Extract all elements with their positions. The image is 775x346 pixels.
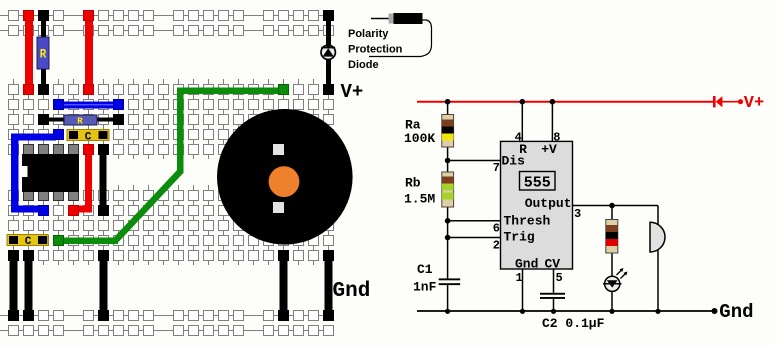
resistor Ra 100K (schematic) [442,115,454,148]
svg-text:100K: 100K [404,131,435,146]
svg-text:3: 3 [574,207,581,221]
wire black ground jumper W9 (row j col2 to bottom rail) [24,251,34,321]
wire: Trig line (pin 2) [448,237,501,239]
annotation: polarity protection diode text [348,28,403,71]
svg-text:Rb: Rb [405,176,421,191]
svg-text:Gnd: Gnd [515,257,538,272]
svg-text:Dis: Dis [502,153,526,168]
wire red jumper W2 (V+ rail to row a col6) [84,11,94,95]
wire green jumper W7 (row a col19 to row i col4) [54,85,289,246]
capacitor C2 0.1uF (schematic) [540,293,565,311]
capacitor C1 1nF (schematic) [439,278,461,285]
svg-text:Trig: Trig [504,230,535,245]
svg-text:Thresh: Thresh [504,214,551,229]
wire red jumper W1 (V+ rail to row a col2) [24,11,34,95]
resistor R3 (output, schematic) [606,206,618,312]
diode pictorial (lead, grey band, black body) [371,13,423,24]
svg-text:2: 2 [493,239,500,253]
svg-text:6: 6 [493,222,500,236]
resistor R (horizontal, row c col3-col8) [39,115,124,127]
pin 8 stub [550,99,561,145]
svg-text:4: 4 [515,131,522,145]
svg-text:7: 7 [493,161,500,175]
svg-text:C1: C1 [417,262,433,277]
svg-text:1nF: 1nF [413,280,437,295]
svg-text:C: C [85,131,92,143]
LED (schematic indicator) [603,268,628,291]
wire blue loop W4 (row d col4, around left of IC, to row g col3) [11,130,64,216]
node V+ (schematic, red) [738,94,764,113]
callout curve from diode pictorial to Diode text [369,20,432,57]
svg-text:Protection: Protection [348,44,403,56]
wire black ground jumper W12 (row j col22 to bottom rail) [324,251,334,321]
resistor Rb 1.5M (schematic) [442,172,454,207]
svg-text:1: 1 [516,271,523,285]
wire black ground jumper W10 (row j col7 to bottom rail) [99,251,109,321]
svg-text:V+: V+ [341,81,364,103]
speaker (schematic) [650,206,665,312]
svg-text:Gnd: Gnd [719,301,753,323]
op-amp/timer U2 555 IC box [501,141,573,271]
svg-text:555: 555 [524,174,551,191]
IC U1 (8-pin DIP on breadboard) [22,145,80,201]
wire black jumper W6 (row e col7 to row g col7) [99,145,109,216]
svg-text:V+: V+ [744,94,764,113]
label Rb / 1.5M [404,176,435,207]
schematic ground rail [417,309,714,314]
label C1 / 1nF [413,262,437,295]
capacitor C (row i, cols 1-3) [7,235,48,249]
svg-text:R: R [40,47,47,62]
wire red jumper W5 (row e col6 to row g col5) [69,145,94,216]
wire: Dis line (pin 7) [448,160,501,162]
label Ra / 100K [404,118,435,146]
pin 4 stub [515,99,526,145]
wire: Thresh line (pin 6) [448,220,501,222]
svg-text:CV: CV [545,257,561,272]
resistor R (brown body vertical, col3) [37,11,49,95]
svg-text:Output: Output [525,196,572,211]
wire blue jumper W3 (row b col4 to col8) [54,100,124,110]
svg-text:8: 8 [553,131,560,145]
schematic diode on V+ rail [713,96,722,107]
polarity protection diode D1 (col22, rail to row a) [321,11,335,95]
pin 1 stub [516,269,523,311]
pin 3 output stub [573,203,659,221]
svg-text:Polarity: Polarity [348,28,389,40]
svg-text:5: 5 [556,271,563,285]
svg-text:Gnd: Gnd [333,280,371,303]
junction dots (left chain) [445,99,451,240]
wire black ground jumper W8 (row j col1 to bottom rail) [9,251,19,321]
breadboard grid [0,11,334,336]
wire: left vertical net (Ra-Rb-C1 chain) [447,102,449,311]
wire black ground jumper W11 (row j col19 to bottom rail) [279,251,289,321]
svg-text:C2 0.1µF: C2 0.1µF [542,316,605,331]
capacitor C (row d, cols 5-7) [67,130,109,144]
svg-text:R: R [77,117,83,127]
svg-text:1.5M: 1.5M [404,191,435,206]
svg-text:Diode: Diode [348,59,379,71]
schematic V+ rail (red) [417,101,739,103]
node Gnd (schematic) [712,301,754,323]
pin 5 stub [554,269,563,293]
speaker SP1 (black disc with orange dome) [217,109,353,245]
svg-text:C: C [25,236,32,248]
